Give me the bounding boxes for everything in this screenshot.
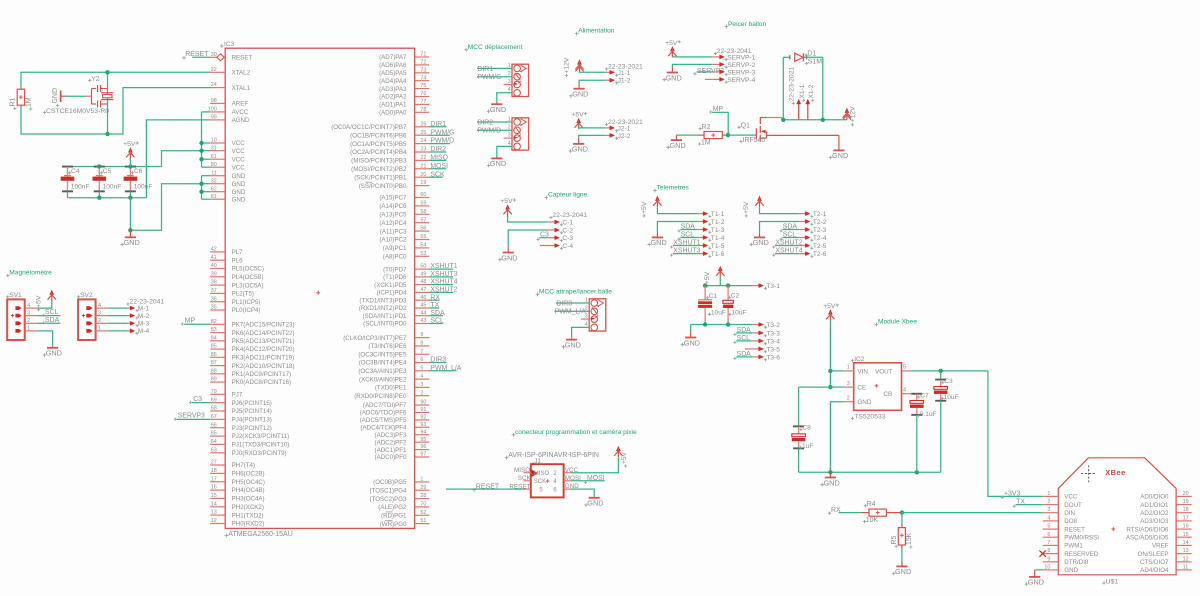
svg-text:M-4: M-4 <box>138 328 150 335</box>
Y2 value label CSTCE16M0V53-R0 <box>43 111 46 114</box>
svg-text:(RXD1/INT2)PD2: (RXD1/INT2)PD2 <box>359 305 407 312</box>
pin arrow C-3 <box>548 237 556 239</box>
svg-text:Y2: Y2 <box>91 76 100 83</box>
svg-text:72: 72 <box>420 60 426 66</box>
connector SV1 4-pin header <box>7 299 25 340</box>
svg-text:C6: C6 <box>134 168 143 175</box>
svg-text:10: 10 <box>1044 564 1050 570</box>
svg-text:30: 30 <box>211 52 217 58</box>
svg-text:T2-4: T2-4 <box>813 235 827 242</box>
svg-text:PWM_L/A: PWM_L/A <box>430 365 461 372</box>
ground symbol below connector X3 <box>496 157 498 158</box>
svg-text:(A10)PC2: (A10)PC2 <box>379 237 407 244</box>
section title MCC deplacement <box>464 48 468 52</box>
svg-text:13: 13 <box>211 510 217 516</box>
svg-text:T3-2: T3-2 <box>766 322 780 329</box>
pin arrow X1-2 (up) <box>807 103 809 120</box>
svg-text:PJ5(PCINT14): PJ5(PCINT14) <box>232 408 272 415</box>
svg-text:DIR1: DIR1 <box>477 66 493 73</box>
IC2 TS520533 regulator box <box>854 363 902 411</box>
svg-text:(ADC6/TDO)PF6: (ADC6/TDO)PF6 <box>360 410 407 417</box>
svg-text:(OC0B)PG5: (OC0B)PG5 <box>373 479 407 486</box>
junction C2 top <box>726 283 730 287</box>
svg-text:32: 32 <box>211 178 217 184</box>
wire node to XBee DIN <box>902 512 1043 514</box>
junction C5 top <box>97 164 101 168</box>
svg-text:VCC: VCC <box>1064 494 1078 501</box>
svg-text:SDA: SDA <box>430 310 445 317</box>
svg-text:GND: GND <box>501 253 517 262</box>
svg-text:Telemetres: Telemetres <box>657 185 690 192</box>
wire C-2 to ground <box>508 230 547 246</box>
wire pin4 to ground <box>572 327 590 337</box>
svg-text:63: 63 <box>211 447 217 453</box>
net label PWM_L/A on PE3 <box>429 370 457 372</box>
svg-text:10K: 10K <box>866 517 879 524</box>
svg-text:PL0(ICP4): PL0(ICP4) <box>232 307 261 314</box>
svg-text:84: 84 <box>211 335 217 341</box>
svg-text:94: 94 <box>420 429 426 435</box>
svg-text:(MOSI/PCINT2)PB2: (MOSI/PCINT2)PB2 <box>351 166 407 173</box>
svg-text:64: 64 <box>211 439 217 445</box>
svg-text:T3-3: T3-3 <box>766 330 780 337</box>
wire +5V rail above caps <box>68 151 202 167</box>
svg-text:Alimentation: Alimentation <box>578 28 615 35</box>
svg-text:T1-2: T1-2 <box>711 219 725 226</box>
svg-text:XSHUT1: XSHUT1 <box>430 263 457 270</box>
svg-text:RESERVED: RESERVED <box>1064 551 1098 558</box>
svg-text:42: 42 <box>211 247 217 253</box>
svg-text:2: 2 <box>98 318 101 324</box>
svg-text:SERVP3: SERVP3 <box>178 413 205 420</box>
svg-text:VIN: VIN <box>857 368 868 375</box>
wire +5V to J2-1 <box>579 128 606 129</box>
net label XSHUT4 to T2-6 <box>775 253 799 255</box>
junction VCC pin61 <box>199 157 203 161</box>
XBee crosshair icon <box>1081 465 1096 482</box>
svg-text:43: 43 <box>420 318 426 324</box>
svg-text:J1-2: J1-2 <box>618 77 631 84</box>
svg-text:78: 78 <box>420 107 426 113</box>
net label SCL on PD0 <box>429 323 443 325</box>
svg-text:RX: RX <box>430 294 440 301</box>
svg-text:PH2(XCK2): PH2(XCK2) <box>232 504 264 511</box>
svg-text:SCL: SCL <box>783 232 797 239</box>
svg-text:C1: C1 <box>709 293 718 300</box>
svg-text:GND: GND <box>684 338 700 347</box>
resistor R2 1M <box>697 134 704 136</box>
svg-text:12: 12 <box>211 518 217 524</box>
svg-text:67: 67 <box>211 414 217 420</box>
wire +5V rail at T3 <box>705 285 753 287</box>
stub pin3 connector X2 <box>504 84 512 86</box>
+5V supply at J2 <box>577 119 581 123</box>
wire IC2 GND pin to rail <box>830 402 843 473</box>
svg-text:(MISO/PCINT3)PB3: (MISO/PCINT3)PB3 <box>351 158 407 165</box>
IC3 ATMEGA2560-15AU main MCU box <box>225 48 414 528</box>
IC3 left pins: VCC group <box>210 142 225 144</box>
pin arrow SERVP-1 <box>713 56 721 58</box>
wire SV1 pin1 to ground <box>37 331 53 346</box>
+5V supply at T2 <box>758 196 762 200</box>
svg-text:U$1: U$1 <box>1106 578 1119 585</box>
svg-text:+3V3: +3V3 <box>1004 491 1020 498</box>
svg-text:RESET: RESET <box>1064 526 1085 533</box>
svg-text:7: 7 <box>420 349 423 355</box>
svg-text:1uF: 1uF <box>802 443 813 450</box>
svg-text:5: 5 <box>420 365 423 371</box>
svg-text:GND: GND <box>232 189 246 196</box>
wire XBee GND pin10 to ground <box>1035 569 1043 571</box>
svg-text:DIR3: DIR3 <box>430 357 446 364</box>
svg-text:SDA: SDA <box>681 224 696 231</box>
svg-text:(TXD0)PE1: (TXD0)PE1 <box>375 385 407 392</box>
section title conecteur programmation et camera pixie <box>512 433 516 437</box>
svg-text:9: 9 <box>420 332 423 338</box>
svg-text:GND: GND <box>232 173 246 180</box>
svg-text:RESET: RESET <box>476 484 500 491</box>
svg-text:52: 52 <box>420 510 426 516</box>
svg-text:MOSI: MOSI <box>430 163 448 170</box>
svg-text:17: 17 <box>211 476 217 482</box>
Y2 name label <box>88 79 91 82</box>
pin arrow T2-2 <box>799 221 806 223</box>
svg-text:2: 2 <box>27 318 30 324</box>
net label MP on PK7 wire <box>184 323 210 325</box>
svg-text:T1-4: T1-4 <box>711 235 725 242</box>
svg-text:GND: GND <box>124 238 140 247</box>
svg-text:20: 20 <box>1183 491 1189 497</box>
svg-text:T3-6: T3-6 <box>766 354 780 361</box>
svg-text:C7: C7 <box>920 392 929 399</box>
XBee module body U$1 <box>1058 458 1176 575</box>
svg-text:73: 73 <box>420 67 426 73</box>
connector X3 motor 2 (molex 4-pin) <box>512 118 529 150</box>
ground symbol at line sensor <box>507 246 509 252</box>
svg-text:(TOSC1)PG4: (TOSC1)PG4 <box>369 487 407 494</box>
capacitor C5 100nF <box>94 166 105 168</box>
svg-text:(A8)PC0: (A8)PC0 <box>383 254 407 261</box>
svg-text:+12V: +12V <box>849 106 856 123</box>
svg-text:X1-1: X1-1 <box>799 84 806 98</box>
net label XSHUT3 to T1-6 <box>673 253 697 255</box>
svg-text:98: 98 <box>211 98 217 104</box>
svg-text:97: 97 <box>420 452 426 458</box>
wire J1-2 to ground <box>579 80 605 82</box>
net label PWM/G into connector <box>477 76 512 78</box>
svg-text:XSHUT1: XSHUT1 <box>673 240 700 247</box>
svg-text:(SS/PCINT0)PB0: (SS/PCINT0)PB0 <box>359 183 407 190</box>
svg-text:SCK: SCK <box>430 171 445 178</box>
svg-text:99: 99 <box>211 115 217 121</box>
svg-text:(AD1)PA1: (AD1)PA1 <box>379 102 407 109</box>
wire +5V down to VIN and CE <box>829 321 831 388</box>
net label PWM/D into connector <box>477 129 512 131</box>
svg-text:+12V: +12V <box>564 57 571 74</box>
svg-text:75: 75 <box>420 83 426 89</box>
svg-text:(OC2A/PCINT4)PB4: (OC2A/PCINT4)PB4 <box>350 149 407 156</box>
pin arrow T3-5 (unconnected) <box>745 348 753 350</box>
pin arrow T3-1 <box>753 285 760 287</box>
svg-text:(ADC5/TMS)PF5: (ADC5/TMS)PF5 <box>360 417 407 424</box>
svg-text:86: 86 <box>211 352 217 358</box>
net label SCL to T3-4 <box>736 340 752 342</box>
svg-text:XTAL2: XTAL2 <box>232 70 251 77</box>
svg-text:87: 87 <box>211 360 217 366</box>
ground symbol at SERVP header <box>671 67 673 73</box>
svg-text:R4: R4 <box>867 501 876 508</box>
svg-text:13: 13 <box>1183 548 1189 554</box>
pin arrow SERVP-2 <box>713 63 721 65</box>
IC3 left pins: RESET XTAL AREF AVCC AGND <box>210 56 219 58</box>
svg-text:XSHUT3: XSHUT3 <box>673 248 700 255</box>
svg-text:AVR-ISP-6PINAVR-ISP-6PIN: AVR-ISP-6PINAVR-ISP-6PIN <box>508 452 599 459</box>
svg-text:T2-2: T2-2 <box>813 219 827 226</box>
svg-text:+5V: +5V <box>500 198 513 205</box>
svg-text:(AD3)PA3: (AD3)PA3 <box>379 86 407 93</box>
+5V supply at T1 <box>656 196 660 200</box>
net label SCL to T2-4 <box>782 237 799 239</box>
svg-text:77: 77 <box>420 99 426 105</box>
svg-text:AD3/DIO3: AD3/DIO3 <box>1140 518 1169 525</box>
svg-text:J2-2: J2-2 <box>618 133 631 140</box>
svg-text:RX: RX <box>831 507 841 514</box>
section title Module Xbee <box>875 323 879 327</box>
svg-text:AD4/DIO4: AD4/DIO4 <box>1140 567 1169 574</box>
svg-text:PJ4(PCINT13): PJ4(PCINT13) <box>232 417 272 424</box>
svg-text:(RXD0/PCIN8)PE0: (RXD0/PCIN8)PE0 <box>354 393 407 400</box>
wire T2-2 to ground <box>760 222 800 233</box>
IC3 right pins: PD port <box>415 268 430 270</box>
ISP left pin stubs and outside labels <box>524 472 531 474</box>
transistor Q1 IRF540 n-channel MOSFET <box>728 134 755 136</box>
ground symbol left of R2 <box>675 135 677 140</box>
junction CE <box>828 385 832 389</box>
resistor R1 1M (vertical, inline with left branch) <box>20 87 22 89</box>
wire +12V to J1-1 <box>580 71 606 74</box>
svg-text:(RD)PG1: (RD)PG1 <box>381 513 407 520</box>
pin arrow T3-2 <box>753 324 760 326</box>
wire SV1 pin4 to +5V <box>37 299 52 308</box>
pin arrow C-2 <box>548 229 556 231</box>
svg-text:21: 21 <box>420 163 426 169</box>
svg-text:(SDA/INT1)PD1: (SDA/INT1)PD1 <box>362 313 407 320</box>
net label SCK on PB1 <box>429 176 443 178</box>
svg-text:GND: GND <box>824 478 840 487</box>
svg-text:+5V: +5V <box>123 141 136 148</box>
svg-text:CSTCE16M0V53-R0: CSTCE16M0V53-R0 <box>46 108 109 115</box>
svg-text:91: 91 <box>420 407 426 413</box>
wire XTAL2 net: pin22 left, down, bottom run <box>21 72 210 87</box>
svg-text:2: 2 <box>847 395 850 401</box>
+5V supply at line sensor <box>506 205 510 209</box>
svg-text:VCC: VCC <box>232 156 246 163</box>
net label DIR1 on PB7 <box>429 126 446 128</box>
section title Magnetometre <box>6 274 10 278</box>
ground symbol below connector X2 <box>496 103 498 104</box>
wire VOUT to +3V3 and C3 <box>911 370 988 372</box>
svg-text:PWM_L/A: PWM_L/A <box>555 309 586 316</box>
svg-text:+5V: +5V <box>35 295 42 308</box>
net label MOSI on PB2 <box>429 168 446 170</box>
svg-text:AGND: AGND <box>232 117 250 124</box>
svg-text:SCK: SCK <box>534 479 546 485</box>
svg-text:(T3/INT6)PE6: (T3/INT6)PE6 <box>368 343 407 350</box>
junction VCC pin31 <box>199 149 203 153</box>
svg-text:6: 6 <box>1047 532 1050 538</box>
ground symbol at T2 <box>759 233 761 238</box>
svg-text:(OC1B/PCINT6)PB6: (OC1B/PCINT6)PB6 <box>350 132 407 139</box>
svg-text:T3-5: T3-5 <box>766 346 780 353</box>
svg-text:PK1(ADC9/PCINT17): PK1(ADC9/PCINT17) <box>232 371 292 378</box>
svg-text:68: 68 <box>211 406 217 412</box>
pin arrow J1-2 <box>605 79 610 81</box>
svg-text:C-2: C-2 <box>562 227 573 234</box>
svg-text:15K: 15K <box>906 532 913 545</box>
svg-text:14: 14 <box>211 501 217 507</box>
svg-text:XSHUT4: XSHUT4 <box>775 248 802 255</box>
svg-text:(TOSC2)PG3: (TOSC2)PG3 <box>369 496 407 503</box>
svg-text:28: 28 <box>420 493 426 499</box>
svg-text:(T1)PD6: (T1)PD6 <box>383 274 407 281</box>
net label DIR2 on PB4 <box>429 151 446 153</box>
svg-text:R1: R1 <box>10 98 17 107</box>
junction GND pin62 <box>199 190 203 194</box>
svg-text:0.1uF: 0.1uF <box>920 411 937 418</box>
svg-text:AD1/DIO1: AD1/DIO1 <box>1140 502 1169 509</box>
svg-text:15: 15 <box>211 493 217 499</box>
svg-text:4: 4 <box>420 374 423 380</box>
svg-text:R2: R2 <box>702 124 711 131</box>
svg-text:GND: GND <box>1064 567 1078 574</box>
svg-text:49: 49 <box>420 272 426 278</box>
connector label 22-23-2041 <box>549 216 552 219</box>
net label SERVP3 on PJ4 wire <box>177 418 211 420</box>
svg-text:DIR3: DIR3 <box>556 300 572 307</box>
svg-text:Magnétomètre: Magnétomètre <box>9 270 52 277</box>
section title Capteur ligne <box>545 196 549 200</box>
capacitor C3 10uF <box>940 371 942 380</box>
svg-text:GND: GND <box>1028 578 1044 587</box>
IC2 pin stubs <box>844 370 854 372</box>
svg-text:(OC3B/INT4)PE4: (OC3B/INT4)PE4 <box>359 360 407 367</box>
svg-text:(XCK1)PD5: (XCK1)PD5 <box>374 282 407 289</box>
svg-text:40: 40 <box>211 263 217 269</box>
svg-text:GND: GND <box>670 141 686 150</box>
svg-text:DIR2: DIR2 <box>477 119 493 126</box>
svg-text:SERVP-2: SERVP-2 <box>727 62 755 69</box>
ground symbol under IC2 <box>829 472 831 477</box>
svg-text:SERVP-1: SERVP-1 <box>727 54 755 61</box>
svg-text:54: 54 <box>420 243 426 249</box>
svg-text:MISO: MISO <box>534 471 550 477</box>
svg-text:XSHUT3: XSHUT3 <box>430 271 457 278</box>
connector J? 22-23-2041 label at SV2 <box>126 302 129 305</box>
net label SDA to T3-3 <box>736 332 752 334</box>
svg-text:PL2(T5): PL2(T5) <box>232 291 254 298</box>
IC3 left pins: PL port <box>210 251 225 253</box>
IC3 right pins: PB port <box>415 126 430 128</box>
svg-text:R5: R5 <box>891 536 898 545</box>
svg-text:26: 26 <box>420 121 426 127</box>
net label MOSI at ISP <box>571 480 605 482</box>
resistor R4 10K <box>862 512 869 514</box>
ground symbol at J2 <box>578 138 580 144</box>
svg-text:22-23-2021: 22-23-2021 <box>789 67 796 102</box>
svg-text:57: 57 <box>420 217 426 223</box>
wire X1 left branch <box>782 57 784 120</box>
svg-text:55: 55 <box>420 234 426 240</box>
svg-text:T3-4: T3-4 <box>766 338 780 345</box>
svg-text:DIR1: DIR1 <box>430 121 446 128</box>
ground symbol at T1 <box>656 233 658 238</box>
svg-text:66: 66 <box>211 422 217 428</box>
svg-text:(WR)PG0: (WR)PG0 <box>380 521 407 528</box>
svg-text:ATMEGA2560-15AU: ATMEGA2560-15AU <box>228 531 292 538</box>
wire T1-2 to ground <box>657 222 697 233</box>
+5V supply above caps <box>129 148 133 152</box>
svg-text:7: 7 <box>1047 540 1050 546</box>
svg-text:80: 80 <box>211 162 217 168</box>
net label XSHUT1 to T1-5 <box>673 245 697 247</box>
wire +5V to C-1 <box>508 216 548 223</box>
svg-text:6: 6 <box>420 357 423 363</box>
svg-text:+5V: +5V <box>641 201 648 214</box>
svg-text:SERVP-3: SERVP-3 <box>727 69 755 76</box>
IC3 left pins: PJ port <box>210 393 225 395</box>
net label SDA to T3-6 <box>736 356 752 358</box>
svg-text:GND: GND <box>232 181 246 188</box>
net label RX on PD3 <box>429 299 439 301</box>
net label DIR3 into connector <box>556 302 589 304</box>
connector J1 label 22-23-2021 <box>605 67 608 70</box>
svg-text:IC3: IC3 <box>224 41 235 48</box>
svg-text:4: 4 <box>903 387 906 393</box>
pin arrow T2-1 <box>799 213 806 215</box>
svg-text:PWM1: PWM1 <box>1064 543 1083 550</box>
junction GND stem <box>828 470 832 474</box>
svg-text:22-23-2041: 22-23-2041 <box>552 212 587 219</box>
svg-text:(OC3C/INT5)PE5: (OC3C/INT5)PE5 <box>358 351 407 358</box>
svg-text:PK7(ADC15/PCINT23): PK7(ADC15/PCINT23) <box>232 322 295 329</box>
svg-text:83: 83 <box>211 327 217 333</box>
net label XSHUT2 to T2-5 <box>775 245 799 247</box>
svg-text:DIN: DIN <box>1064 510 1075 517</box>
svg-text:GND: GND <box>895 567 911 576</box>
svg-text:70: 70 <box>420 502 426 508</box>
svg-text:SCL: SCL <box>430 318 444 325</box>
XBee name U$1 <box>1102 581 1105 584</box>
svg-text:93: 93 <box>420 422 426 428</box>
svg-text:VCC: VCC <box>232 164 246 171</box>
svg-text:36: 36 <box>211 296 217 302</box>
wire AGND from pin99 to cap bottom rail <box>146 120 210 198</box>
svg-text:C8: C8 <box>802 425 811 432</box>
svg-text:VCC: VCC <box>232 148 246 155</box>
overline WR on PG0 name <box>385 519 393 521</box>
IC3 left pins: PH port <box>210 464 225 466</box>
ground symbol below R5 <box>901 561 903 567</box>
svg-text:PJ1(TXD3/PCINT10): PJ1(TXD3/PCINT10) <box>232 442 290 449</box>
junction crystal top <box>105 70 109 74</box>
svg-text:(ADC3)PF3: (ADC3)PF3 <box>375 432 408 439</box>
svg-text:12: 12 <box>1183 556 1189 562</box>
svg-text:PK5(ADC13/PCINT21): PK5(ADC13/PCINT21) <box>232 338 295 345</box>
svg-text:17: 17 <box>1183 515 1189 521</box>
IC3 name label <box>220 44 224 48</box>
svg-text:59: 59 <box>420 201 426 207</box>
svg-text:2: 2 <box>420 390 423 396</box>
